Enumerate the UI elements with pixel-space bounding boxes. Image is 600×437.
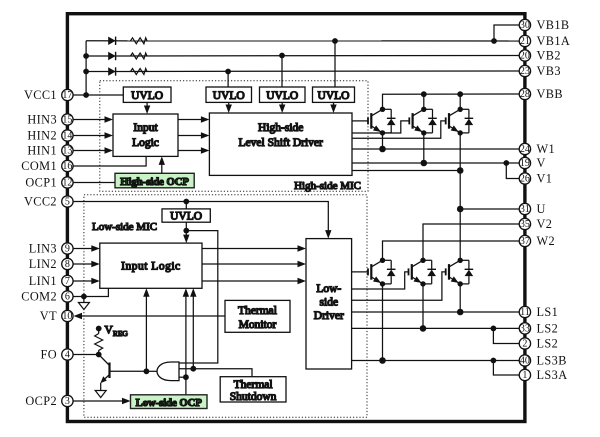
svg-text:19: 19 bbox=[520, 158, 530, 169]
wire VB2 to UVLO U3 bbox=[281, 56, 283, 88]
svg-text:W2: W2 bbox=[537, 234, 556, 248]
block Low-side OCP bbox=[131, 395, 208, 409]
wire fault to input logic (up) bbox=[145, 294, 147, 371]
svg-text:17: 17 bbox=[62, 90, 72, 101]
wire Q5 emitter to LS2 bbox=[422, 284, 424, 329]
svg-text:UVLO: UVLO bbox=[213, 90, 245, 102]
diode D2 bbox=[108, 52, 115, 60]
pin 15 (HIN3) bbox=[27, 113, 73, 127]
wire UVLO U4 arrow bbox=[333, 102, 335, 107]
svg-text:VB1A: VB1A bbox=[537, 34, 571, 48]
pin 10 (VT) bbox=[40, 309, 73, 323]
wire Q6 emitter to LS1 bbox=[459, 284, 461, 312]
svg-text:35: 35 bbox=[520, 219, 530, 230]
wire U line bbox=[460, 208, 519, 210]
pin 17 (VCC1) bbox=[24, 88, 73, 102]
svg-text:40: 40 bbox=[520, 356, 530, 367]
svg-text:FO: FO bbox=[40, 348, 57, 362]
junction U node bbox=[457, 206, 464, 213]
svg-text:HIN2: HIN2 bbox=[27, 129, 57, 143]
UVLO U1 (VCC1 monitor) bbox=[123, 87, 171, 102]
pin 26 (V1) bbox=[519, 172, 552, 186]
block High-side OCP bbox=[115, 173, 194, 188]
wire IGBT Q2 collector bbox=[423, 94, 425, 109]
svg-text:UVLO: UVLO bbox=[131, 90, 163, 102]
wire LS2 pin2 jog bbox=[493, 328, 519, 343]
svg-text:Low-side MIC: Low-side MIC bbox=[92, 221, 157, 233]
wire gate drive Q3 bbox=[352, 121, 446, 138]
svg-text:10: 10 bbox=[62, 311, 72, 322]
wire COM2 to input logic bbox=[73, 288, 108, 296]
wire LS3A jog bbox=[493, 361, 519, 376]
svg-text:HIN1: HIN1 bbox=[27, 144, 57, 158]
block high-side Input Logic bbox=[113, 114, 178, 156]
wire V2 line to Q5 collector bbox=[423, 224, 519, 260]
wire Q3 emitter / U node vertical bbox=[459, 133, 461, 260]
svg-text:Low-: Low- bbox=[316, 283, 341, 295]
junction VCC1 bus / line 2 bbox=[83, 53, 89, 59]
UVLO U5 (low side) bbox=[162, 209, 210, 222]
transistor Q4 low-side W (IGBT with freewheel diode) bbox=[368, 258, 396, 287]
pin 20 (VB2) bbox=[519, 49, 561, 63]
junction TS fault tap bbox=[190, 366, 196, 372]
block High-side Level Shift Driver bbox=[209, 113, 352, 175]
wire high-side OCP arrow to input logic bbox=[161, 162, 163, 173]
transistor Q1 high-side W (IGBT with freewheel diode) bbox=[368, 107, 396, 136]
junction UVLO fault tap bbox=[183, 228, 189, 234]
wire input logic to level shift 1 bbox=[178, 119, 202, 121]
wire VCC2 to UVLO U5 bbox=[185, 202, 187, 209]
wire Q1 emitter to W1 bbox=[382, 133, 384, 149]
ground for Q7 emitter bbox=[95, 383, 106, 398]
svg-text:5: 5 bbox=[65, 197, 70, 208]
svg-text:Monitor: Monitor bbox=[239, 319, 277, 331]
wire UVLO U2 arrow bbox=[228, 102, 230, 107]
transistor Q3 high-side U (IGBT with freewheel diode) bbox=[446, 107, 474, 136]
junction COM2/ground bbox=[81, 294, 87, 300]
svg-text:V2: V2 bbox=[537, 217, 553, 231]
wire OCP1 to high-side OCP bbox=[73, 182, 115, 184]
svg-text:4: 4 bbox=[65, 350, 70, 361]
wire W2 line to Q4 collector bbox=[383, 241, 520, 260]
wire TS fault to input logic (up) bbox=[192, 294, 194, 369]
block low-side Input Logic bbox=[100, 243, 202, 288]
wire bootstrap line 2 (to VB2) bbox=[86, 55, 519, 58]
wire input logic to level shift 3 bbox=[178, 150, 202, 152]
gate G1 (fault combine, faces left) bbox=[157, 362, 179, 381]
wire Q4 emitter to LS3B bbox=[382, 284, 384, 361]
svg-text:Thermal: Thermal bbox=[234, 379, 273, 391]
junction OCP fault tap bbox=[183, 374, 189, 380]
svg-text:Low-side OCP: Low-side OCP bbox=[136, 398, 203, 409]
high-side MIC boundary (dashed) bbox=[100, 81, 368, 191]
junction FO/collector bbox=[96, 352, 102, 358]
wire gate drive Q5 bbox=[352, 272, 409, 289]
block Thermal Monitor bbox=[225, 300, 290, 332]
pin 30 (VB1B) bbox=[519, 18, 569, 32]
svg-text:12: 12 bbox=[62, 178, 72, 189]
junction Q6/LS1 bbox=[457, 309, 464, 316]
wire LIN2 arrow bbox=[73, 263, 93, 265]
svg-text:2: 2 bbox=[522, 339, 527, 350]
wire gate drive Q4 bbox=[352, 271, 368, 273]
wire FO node bbox=[73, 354, 99, 356]
wire LIN1 arrow bbox=[73, 280, 93, 282]
pin 37 (W2) bbox=[519, 234, 555, 248]
pin 12 (OCP1) bbox=[25, 176, 73, 190]
svg-text:V1: V1 bbox=[537, 172, 553, 186]
wire input logic to level shift 2 bbox=[178, 135, 202, 137]
svg-text:VB1B: VB1B bbox=[537, 18, 570, 32]
pin 8 (LIN2) bbox=[29, 257, 73, 271]
wire VB1A to UVLO U4 bbox=[334, 41, 336, 87]
svg-text:High-side: High-side bbox=[258, 122, 303, 134]
pin 9 (LIN3) bbox=[29, 242, 73, 256]
pin 28 (VBB) bbox=[519, 87, 563, 101]
svg-text:31: 31 bbox=[520, 204, 530, 215]
svg-text:High-side MIC: High-side MIC bbox=[294, 180, 361, 192]
svg-text:Shutdown: Shutdown bbox=[230, 391, 277, 403]
svg-text:LS2: LS2 bbox=[537, 322, 559, 336]
diode D3 bbox=[108, 67, 115, 75]
resistor R1 bbox=[131, 38, 148, 44]
svg-text:V: V bbox=[537, 156, 546, 170]
svg-text:1: 1 bbox=[522, 370, 527, 381]
svg-text:20: 20 bbox=[520, 51, 530, 62]
UVLO U2 bbox=[206, 87, 252, 102]
svg-text:16: 16 bbox=[62, 161, 72, 172]
wire HIN2 arrow bbox=[73, 135, 106, 137]
svg-text:VT: VT bbox=[40, 309, 57, 323]
wire LIN3 arrow bbox=[73, 248, 93, 250]
svg-text:High-side OCP: High-side OCP bbox=[120, 177, 189, 188]
wire VBB rail bbox=[383, 94, 520, 109]
junction VCC2/UVLO bbox=[183, 199, 189, 205]
pin 2 (LS2) bbox=[519, 337, 558, 351]
svg-text:LIN1: LIN1 bbox=[29, 274, 57, 288]
svg-text:HIN3: HIN3 bbox=[27, 113, 57, 127]
pin 35 (V2) bbox=[519, 217, 552, 231]
wire gate input 3 (OCP) bbox=[179, 376, 186, 378]
svg-text:COM2: COM2 bbox=[21, 290, 57, 304]
wire OCP fault to input logic (up) bbox=[185, 294, 187, 377]
junction LS2 pins bbox=[491, 326, 497, 332]
junction U sense bbox=[457, 167, 464, 174]
pin 14 (HIN2) bbox=[27, 129, 73, 143]
svg-text:LIN2: LIN2 bbox=[29, 257, 57, 271]
wire input logic to driver 3 bbox=[202, 280, 299, 282]
svg-text:VREG: VREG bbox=[105, 325, 129, 339]
resistor R2 bbox=[131, 53, 148, 59]
pin 1 (LS3A) bbox=[519, 368, 567, 382]
svg-text:8: 8 bbox=[65, 259, 70, 270]
wire UVLO U5 to input logic arrow bbox=[185, 222, 187, 237]
svg-text:21: 21 bbox=[520, 36, 530, 47]
svg-text:VBB: VBB bbox=[537, 87, 563, 101]
junction VB3/UVLO bbox=[225, 69, 231, 75]
svg-text:OCP1: OCP1 bbox=[25, 176, 57, 190]
UVLO U3 bbox=[260, 87, 306, 102]
wire W1 line bbox=[352, 148, 519, 150]
svg-text:VB3: VB3 bbox=[537, 64, 561, 78]
resistor R3 bbox=[131, 69, 148, 75]
wire gate drive Q6 bbox=[352, 272, 446, 300]
transistor Q7 (fault output NPN) bbox=[99, 355, 147, 384]
resistor R4 (VREG pull-up) bbox=[98, 329, 100, 334]
svg-text:6: 6 bbox=[65, 292, 70, 303]
pin 33 (LS2) bbox=[519, 322, 558, 336]
junction Q2/V bbox=[421, 160, 428, 167]
pin 23 (VB3) bbox=[519, 64, 561, 78]
wire OCP fault down to low-side OCP bbox=[185, 377, 187, 395]
wire gate drive Q2 bbox=[352, 121, 409, 133]
junction Q4/LS3B bbox=[379, 357, 386, 364]
svg-text:U: U bbox=[537, 202, 546, 216]
svg-text:LS3A: LS3A bbox=[537, 368, 568, 382]
svg-text:Input: Input bbox=[133, 122, 158, 134]
svg-text:VCC2: VCC2 bbox=[24, 195, 57, 209]
svg-text:15: 15 bbox=[62, 115, 72, 126]
pin 24 (W1) bbox=[519, 142, 555, 156]
pin 6 (COM2) bbox=[21, 290, 73, 304]
junction Q1/W1 bbox=[379, 146, 386, 153]
svg-text:9: 9 bbox=[65, 244, 70, 255]
wire driver U sense bbox=[352, 170, 460, 172]
pin 3 (OCP2) bbox=[25, 394, 73, 408]
UVLO U4 bbox=[313, 87, 355, 102]
svg-text:23: 23 bbox=[520, 66, 530, 77]
svg-text:30: 30 bbox=[520, 20, 530, 31]
svg-text:14: 14 bbox=[62, 131, 72, 142]
transistor Q2 high-side V (IGBT with freewheel diode) bbox=[409, 107, 437, 136]
wire VCC2 to low-side driver bbox=[73, 202, 328, 233]
svg-text:LS3B: LS3B bbox=[537, 354, 567, 368]
wire input logic to driver 1 bbox=[202, 248, 299, 250]
svg-text:W1: W1 bbox=[537, 142, 556, 156]
wire UVLO fault to gate input 1 bbox=[179, 231, 218, 363]
pin 11 (LS1) bbox=[519, 305, 558, 319]
wire LS2 line bbox=[352, 327, 519, 329]
svg-text:Driver: Driver bbox=[314, 310, 344, 322]
junction VBB/Q2 bbox=[421, 91, 427, 97]
wire V line bbox=[352, 162, 519, 164]
wire LS1 line bbox=[352, 311, 519, 313]
svg-text:Level Shift Driver: Level Shift Driver bbox=[239, 137, 323, 149]
ground for COM2 bbox=[78, 297, 89, 310]
junction VB1B-VB1A bbox=[491, 38, 497, 44]
svg-text:24: 24 bbox=[520, 144, 530, 155]
transistor Q6 low-side U (IGBT with freewheel diode) bbox=[446, 258, 474, 287]
svg-text:LIN3: LIN3 bbox=[29, 242, 57, 256]
junction Q5/LS2 bbox=[420, 325, 427, 332]
junction VBB/Q3 bbox=[457, 91, 463, 97]
svg-text:28: 28 bbox=[520, 89, 530, 100]
svg-text:Logic: Logic bbox=[132, 137, 159, 149]
svg-text:Thermal: Thermal bbox=[238, 305, 277, 317]
svg-text:Input Logic: Input Logic bbox=[121, 261, 180, 273]
block Low-side Driver bbox=[306, 239, 352, 369]
wire gate drive Q1 bbox=[352, 120, 368, 122]
wire thermal monitor to VT bbox=[81, 315, 225, 317]
pin 40 (LS3B) bbox=[519, 354, 567, 368]
junction VB2/UVLO bbox=[279, 53, 285, 59]
svg-text:37: 37 bbox=[520, 236, 530, 247]
block Thermal Shutdown bbox=[220, 377, 286, 402]
wire LS3B line bbox=[352, 360, 519, 362]
pin 16 (COM1) bbox=[21, 159, 73, 173]
wire HIN3 arrow bbox=[73, 119, 106, 121]
junction VB1A/UVLO bbox=[332, 38, 338, 44]
pin 13 (HIN1) bbox=[27, 144, 73, 158]
wire COM1 to input logic bbox=[73, 156, 146, 166]
wire gate input 2 (thermal shutdown) bbox=[179, 369, 252, 377]
transistor Q5 low-side V (IGBT with freewheel diode) bbox=[409, 258, 437, 287]
wire HIN1 arrow bbox=[73, 150, 106, 152]
diode D1 bbox=[108, 37, 115, 45]
svg-text:VB2: VB2 bbox=[537, 49, 561, 63]
svg-text:UVLO: UVLO bbox=[318, 90, 350, 102]
svg-text:COM1: COM1 bbox=[21, 159, 57, 173]
pin 5 (VCC2) bbox=[24, 195, 73, 209]
pin 4 (FO) bbox=[40, 348, 73, 362]
junction VCC1 node bbox=[83, 92, 89, 98]
wire VCC1 bus vertical bbox=[85, 41, 87, 95]
svg-text:VCC1: VCC1 bbox=[24, 88, 57, 102]
wire OCP2 to low-side OCP bbox=[73, 400, 124, 402]
wire VB3 to UVLO U2 bbox=[227, 72, 229, 88]
svg-text:LS1: LS1 bbox=[537, 305, 559, 319]
wire Q2 emitter to V bbox=[423, 133, 425, 163]
svg-text:26: 26 bbox=[520, 174, 530, 185]
node VREG bbox=[96, 326, 102, 332]
wire UVLO U1 arrow to input logic bbox=[146, 102, 148, 108]
junction V/V1 bbox=[503, 160, 509, 166]
junction VCC1 bus / line 3 bbox=[83, 69, 89, 75]
low-side MIC boundary (dashed) bbox=[84, 195, 367, 417]
wire IGBT Q3 collector bbox=[459, 94, 461, 109]
wire VCC1 to UVLO bbox=[73, 94, 123, 96]
svg-text:OCP2: OCP2 bbox=[25, 394, 57, 408]
svg-text:3: 3 bbox=[65, 396, 70, 407]
svg-text:33: 33 bbox=[520, 324, 530, 335]
wire bootstrap line 1 (to VB1A) bbox=[86, 40, 519, 42]
junction LS3B/LS3A bbox=[491, 358, 497, 364]
svg-text:11: 11 bbox=[520, 307, 530, 318]
svg-text:LS2: LS2 bbox=[537, 337, 559, 351]
wire bootstrap line 3 (to VB3) bbox=[86, 70, 519, 73]
wire input logic to driver 2 bbox=[202, 263, 299, 265]
package outline bbox=[67, 14, 525, 422]
pin 31 (U) bbox=[519, 202, 546, 216]
wire UVLO U3 arrow bbox=[281, 102, 283, 107]
wire VB1B jog to VB1A bbox=[494, 25, 519, 41]
wire V1 jog bbox=[506, 163, 519, 179]
junction gate output / fault node bbox=[144, 368, 150, 374]
wire gate output bbox=[146, 370, 157, 372]
svg-text:UVLO: UVLO bbox=[266, 90, 298, 102]
pin 21 (VB1A) bbox=[519, 34, 570, 48]
svg-text:side: side bbox=[320, 297, 339, 309]
svg-text:UVLO: UVLO bbox=[170, 211, 202, 223]
pin 19 (V) bbox=[519, 156, 546, 170]
svg-text:13: 13 bbox=[62, 146, 72, 157]
svg-text:7: 7 bbox=[65, 276, 70, 287]
pin 7 (LIN1) bbox=[29, 274, 73, 288]
